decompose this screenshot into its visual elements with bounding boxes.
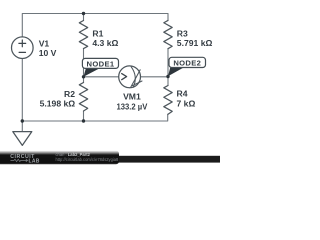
wire top rail from V1 to R3: [22, 14, 168, 37]
junction node B (NODE2): [166, 75, 169, 78]
svg-text:NODE2: NODE2: [173, 59, 201, 68]
node NODE1 flag: [82, 58, 118, 76]
svg-text:V1: V1: [39, 38, 50, 48]
wire R1 top stub: [83, 14, 85, 21]
svg-text:http://circuitlab.com/c/e78ds2: http://circuitlab.com/c/e78ds2ygia8: [56, 157, 120, 162]
voltage source V1: [11, 37, 33, 59]
wire R3 bottom to node2: [167, 49, 169, 77]
resistor R3: [164, 20, 172, 48]
wire bottom rail: [22, 114, 167, 121]
svg-text:133.2 µV: 133.2 µV: [117, 102, 148, 112]
svg-text:R1: R1: [92, 28, 103, 38]
watermark bar: [100, 156, 220, 163]
svg-text:VM1: VM1: [123, 92, 141, 102]
svg-text:7 kΩ: 7 kΩ: [177, 98, 196, 108]
wire R2 stubs: [83, 77, 85, 121]
svg-text:LAB: LAB: [29, 159, 40, 165]
resistor R4: [164, 86, 172, 115]
wire ground stem: [21, 121, 23, 132]
resistor R2: [79, 83, 87, 112]
svg-text:NODE1: NODE1: [87, 59, 115, 68]
svg-text:5.791 kΩ: 5.791 kΩ: [177, 38, 213, 48]
wire mid rail left to VM1: [84, 76, 119, 78]
junction node A (NODE1): [82, 75, 85, 78]
node NODE2 flag: [168, 57, 206, 76]
junction bottom rail R2: [82, 119, 85, 122]
wire R4 top stub: [167, 77, 169, 86]
svg-text:R2: R2: [64, 89, 75, 99]
svg-text:5.198 kΩ: 5.198 kΩ: [40, 99, 76, 109]
junction top rail R1: [82, 12, 85, 15]
wire mid rail VM1 to node2: [141, 76, 169, 78]
svg-text:10 V: 10 V: [39, 48, 57, 58]
resistor R1: [79, 21, 87, 49]
svg-text:4.3 kΩ: 4.3 kΩ: [92, 38, 118, 48]
wire R1 bottom to node1: [83, 49, 85, 77]
junction bottom rail ground: [21, 119, 24, 122]
voltmeter VM1: [119, 66, 141, 88]
wire V1 bottom to bottom rail: [21, 59, 23, 122]
svg-text:R3: R3: [177, 28, 188, 38]
ground: [13, 132, 32, 146]
svg-text:R4: R4: [177, 89, 188, 99]
